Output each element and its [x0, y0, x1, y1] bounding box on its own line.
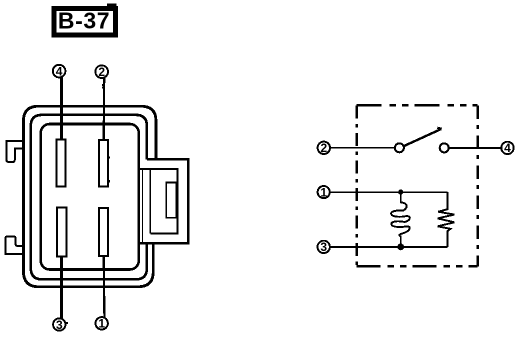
svg-text:2: 2	[98, 65, 105, 79]
svg-text:B-37: B-37	[58, 8, 110, 34]
svg-text:3: 3	[56, 318, 63, 332]
svg-text:4: 4	[504, 141, 511, 155]
svg-text:2: 2	[320, 141, 327, 155]
svg-text:4: 4	[56, 64, 63, 78]
svg-text:1: 1	[98, 317, 105, 331]
svg-text:1: 1	[320, 185, 327, 199]
svg-text:3: 3	[320, 240, 327, 254]
